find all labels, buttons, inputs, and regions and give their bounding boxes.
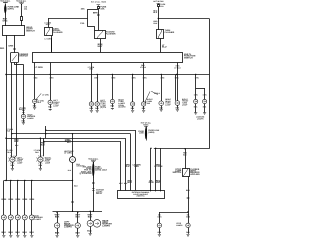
svg-text:GRN: GRN: [8, 44, 13, 47]
svg-text:HOT AT ALL TIMES: HOT AT ALL TIMES: [91, 0, 107, 3]
svg-text:HOT IN RUN: HOT IN RUN: [153, 0, 164, 3]
svg-text:RED: RED: [186, 189, 191, 192]
svg-text:BLK: BLK: [75, 215, 80, 218]
svg-text:GRN: GRN: [15, 198, 20, 201]
svg-text:RELAY: RELAY: [96, 192, 103, 195]
svg-text:RED: RED: [134, 165, 139, 168]
svg-text:BRN: BRN: [93, 11, 98, 14]
svg-text:GRN: GRN: [22, 198, 27, 201]
svg-text:BLK: BLK: [41, 143, 46, 146]
svg-text:WHT: WHT: [98, 45, 104, 48]
svg-text:LAMPS: LAMPS: [27, 117, 34, 120]
svg-text:APPLIED: APPLIED: [190, 173, 200, 176]
svg-text:BLK: BLK: [55, 231, 60, 234]
svg-text:FLASHER: FLASHER: [165, 31, 175, 34]
svg-text:FLASHER: FLASHER: [106, 33, 116, 36]
svg-text:G: G: [71, 159, 73, 162]
svg-text:LT GRN: LT GRN: [64, 152, 72, 155]
svg-text:BLK: BLK: [125, 165, 130, 168]
svg-text:WHT: WHT: [156, 181, 162, 184]
svg-text:@ STARTER: @ STARTER: [79, 172, 92, 175]
svg-text:LAMPS: LAMPS: [64, 226, 72, 229]
svg-text:LAMP: LAMP: [17, 161, 23, 164]
svg-text:GRN: GRN: [1, 198, 6, 201]
svg-text:LAMP: LAMP: [45, 161, 51, 164]
svg-text:LT GRN: LT GRN: [45, 38, 53, 41]
svg-text:(2) F/S: (2) F/S: [100, 106, 107, 109]
svg-text:FLASHER: FLASHER: [53, 31, 63, 34]
svg-text:BLK: BLK: [75, 231, 80, 234]
svg-text:LT BLU: LT BLU: [140, 66, 147, 69]
svg-text:SWITCH: SWITCH: [19, 55, 28, 58]
svg-text:(GRN): (GRN): [148, 131, 154, 134]
svg-text:BLK: BLK: [55, 215, 60, 218]
svg-text:LAMPS: LAMPS: [102, 224, 110, 227]
svg-text:BLK: BLK: [87, 229, 92, 232]
svg-text:LT GRN: LT GRN: [42, 93, 49, 96]
svg-text:BLK: BLK: [23, 231, 28, 234]
svg-text:LAMPS: LAMPS: [197, 118, 204, 121]
svg-text:BLK: BLK: [2, 231, 7, 234]
svg-text:SWITCH: SWITCH: [26, 30, 35, 33]
svg-text:BLK: BLK: [153, 11, 158, 14]
svg-text:BLK: BLK: [9, 231, 14, 234]
svg-text:BLK: BLK: [154, 22, 159, 25]
svg-text:(GRN) 14GA: (GRN) 14GA: [95, 169, 107, 172]
svg-text:BLK: BLK: [30, 231, 35, 234]
svg-text:ORG: ORG: [3, 19, 8, 22]
svg-text:ORG: ORG: [46, 23, 51, 26]
svg-text:LAMP: LAMP: [53, 105, 59, 108]
svg-text:LINK: LINK: [139, 132, 144, 135]
svg-text:BLK: BLK: [14, 140, 19, 143]
svg-text:SWITCH: SWITCH: [173, 171, 182, 174]
svg-text:LAMPS: LAMPS: [34, 218, 41, 221]
svg-text:GRN: GRN: [29, 198, 34, 201]
svg-text:TIMES: TIMES: [143, 123, 149, 126]
svg-text:GRN: GRN: [8, 198, 13, 201]
svg-text:LAMP: LAMP: [165, 104, 171, 107]
svg-text:SWITCH: SWITCH: [184, 57, 193, 60]
svg-text:RED: RED: [0, 47, 5, 50]
svg-text:(2) GRN: (2) GRN: [118, 106, 126, 109]
svg-text:10A: 10A: [81, 8, 85, 11]
svg-text:LT BLU: LT BLU: [154, 92, 161, 95]
svg-text:BLK: BLK: [128, 181, 133, 184]
svg-text:(SEE PG): (SEE PG): [137, 195, 145, 198]
svg-text:15A: 15A: [100, 7, 104, 10]
svg-text:BLU: BLU: [162, 46, 167, 49]
svg-text:(GRY): (GRY): [8, 7, 14, 10]
svg-text:LT GRN: LT GRN: [154, 165, 162, 168]
svg-text:LAMPS: LAMPS: [176, 224, 183, 227]
svg-text:LT GRN: LT GRN: [35, 66, 43, 69]
svg-text:C.B.: C.B.: [80, 22, 85, 25]
svg-text:BLK: BLK: [16, 231, 21, 234]
svg-text:LAMP: LAMP: [182, 103, 188, 106]
svg-text:BLK: BLK: [88, 215, 93, 218]
svg-text:GRN: GRN: [149, 181, 154, 184]
